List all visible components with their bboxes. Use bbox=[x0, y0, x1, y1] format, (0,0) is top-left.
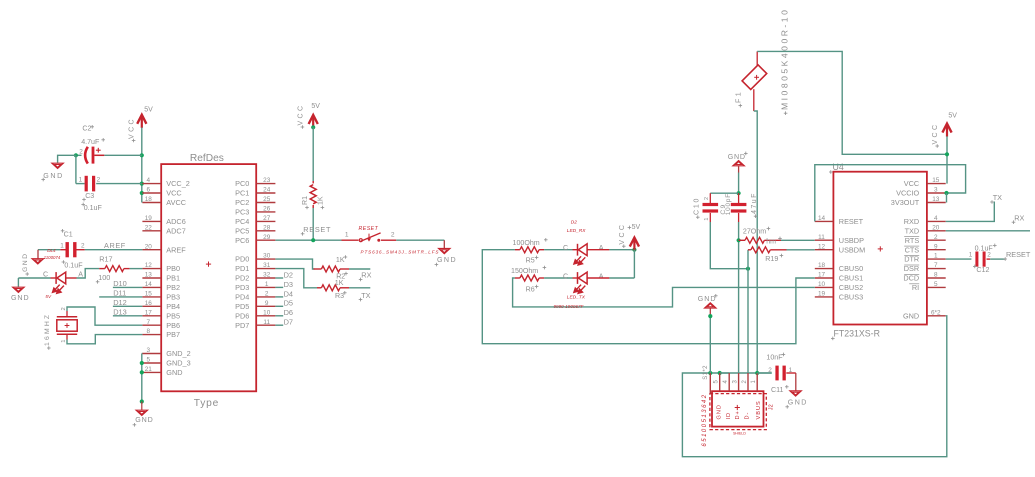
net D7 bbox=[275, 324, 283, 326]
svg-text:D5: D5 bbox=[284, 299, 293, 308]
svg-text:R19: R19 bbox=[765, 255, 778, 263]
wire VBUS node to C11 bbox=[757, 372, 772, 374]
svg-text:PD3: PD3 bbox=[235, 283, 249, 292]
pin 13 3V3OUT (U4 right) bbox=[927, 202, 946, 204]
wire crystal bottom to PB7 bbox=[66, 334, 68, 339]
wire R5 to LED_RX bbox=[544, 249, 572, 251]
svg-text:16: 16 bbox=[145, 300, 153, 307]
pin 15 VCC (U4 right) bbox=[927, 183, 946, 185]
pin 16 PB4 (U1 left) bbox=[142, 305, 161, 307]
svg-text:D12: D12 bbox=[113, 298, 127, 307]
svg-text:GND: GND bbox=[437, 256, 457, 264]
pin 32 PD2 (U1 right) bbox=[256, 277, 275, 279]
svg-text:LED_TX: LED_TX bbox=[567, 294, 586, 300]
junction USB vbus node bbox=[755, 371, 759, 375]
wire PD1 to R3 bbox=[275, 269, 317, 288]
pin 4 VCC_2 (U1 left) bbox=[142, 183, 161, 185]
svg-text:C12: C12 bbox=[976, 266, 989, 274]
ground symbol below U1 bbox=[141, 402, 143, 410]
net D4 bbox=[275, 296, 283, 298]
junction below arrow bbox=[311, 125, 315, 129]
svg-text:RESET: RESET bbox=[1006, 250, 1031, 259]
svg-text:D2: D2 bbox=[284, 270, 293, 279]
svg-text:PC4: PC4 bbox=[235, 217, 249, 226]
pin 25 PC2 (U1 right) bbox=[256, 202, 275, 204]
capacitor C2 4.7uF polarized bbox=[85, 147, 88, 164]
svg-text:20: 20 bbox=[145, 243, 153, 250]
wire usb gnd symbol down bbox=[709, 316, 711, 373]
svg-text:GND: GND bbox=[22, 252, 29, 271]
USB connector shield outline bbox=[710, 394, 766, 430]
pin 28 PC5 (U1 right) bbox=[256, 230, 275, 232]
svg-text:A: A bbox=[78, 270, 83, 278]
svg-text:3: 3 bbox=[934, 187, 938, 194]
svg-text:R1: R1 bbox=[301, 196, 309, 205]
USB connector J2 box bbox=[712, 391, 764, 426]
ground symbol C11 bbox=[795, 373, 797, 391]
svg-text:CBUS2: CBUS2 bbox=[839, 283, 863, 292]
wire LED_TX anode to VCC drop bbox=[587, 277, 609, 279]
wire R17 to PB0 bbox=[130, 268, 143, 270]
LED D5 LED_TX bbox=[578, 272, 588, 284]
svg-text:27: 27 bbox=[263, 215, 271, 222]
supply VCC arrow (5V) near R1 bbox=[309, 115, 318, 128]
junction shield node bbox=[708, 371, 712, 375]
svg-text:1K: 1K bbox=[335, 279, 344, 287]
ground symbol AREF bbox=[37, 250, 39, 259]
svg-text:USBDM: USBDM bbox=[839, 245, 865, 254]
svg-text:5: 5 bbox=[147, 357, 151, 364]
svg-text:RefDes: RefDes bbox=[190, 153, 224, 164]
svg-text:2: 2 bbox=[704, 197, 710, 200]
svg-text:11: 11 bbox=[263, 319, 270, 326]
svg-text:23: 23 bbox=[263, 177, 271, 184]
wire PD0 to R2 bbox=[275, 259, 314, 269]
capacitor C1 0.1uF bbox=[60, 249, 65, 251]
svg-text:VCC: VCC bbox=[129, 117, 136, 139]
USB pin 4 bbox=[728, 373, 730, 391]
pin 26 PC3 (U1 right) bbox=[256, 211, 275, 213]
svg-text:C: C bbox=[563, 273, 568, 281]
pin 15 PB3 (U1 left) bbox=[142, 296, 161, 298]
junction LED VCC node bbox=[632, 248, 636, 252]
pin 7 PB6 (U1 left) bbox=[142, 324, 161, 326]
svg-text:VCC: VCC bbox=[932, 123, 939, 145]
svg-text:Type: Type bbox=[194, 398, 219, 409]
svg-text:1K: 1K bbox=[316, 196, 324, 205]
pin 6 VCC (U1 left) bbox=[142, 192, 161, 194]
svg-text:C: C bbox=[563, 244, 568, 252]
USB shield stub bbox=[709, 373, 711, 394]
svg-text:GND_3: GND_3 bbox=[166, 359, 190, 368]
wire DTR to C12 bbox=[946, 258, 972, 260]
LED D4 LED_RX bbox=[578, 244, 588, 256]
pin 10 PD6 (U1 right) bbox=[256, 315, 275, 317]
svg-text:14: 14 bbox=[145, 281, 153, 288]
svg-text:PB0: PB0 bbox=[166, 264, 180, 273]
svg-text:1: 1 bbox=[969, 251, 973, 258]
svg-text:100: 100 bbox=[98, 273, 110, 282]
pin 10 CBUS2 (U4 left) bbox=[815, 286, 834, 288]
svg-text:FT231XS-R: FT231XS-R bbox=[834, 328, 880, 338]
svg-text:VBUS: VBUS bbox=[756, 400, 762, 419]
svg-text:150Ohm: 150Ohm bbox=[511, 267, 538, 275]
svg-text:100pF: 100pF bbox=[725, 193, 732, 215]
svg-text:GND_2: GND_2 bbox=[166, 349, 190, 358]
svg-text:PD7: PD7 bbox=[235, 321, 249, 330]
net D12 bbox=[113, 305, 142, 307]
svg-text:5V: 5V bbox=[632, 224, 641, 231]
svg-text:0.1uF: 0.1uF bbox=[975, 244, 994, 252]
origin cross J2 bbox=[735, 405, 740, 410]
svg-text:PC3: PC3 bbox=[235, 208, 249, 217]
resistor R5 100Ohm bbox=[515, 249, 520, 251]
svg-text:25: 25 bbox=[263, 196, 271, 203]
wire RXD to TX label bbox=[946, 202, 995, 222]
origin cross U4 bbox=[878, 246, 883, 251]
svg-text:18: 18 bbox=[818, 262, 826, 269]
svg-text:0.1uF: 0.1uF bbox=[84, 204, 103, 212]
capacitor C10 47pF (D- line) bbox=[709, 193, 711, 203]
junction D- node bbox=[746, 267, 750, 271]
wire USB top row bbox=[710, 372, 771, 374]
junction cap gnd node bbox=[737, 191, 741, 195]
svg-text:hm: hm bbox=[766, 238, 776, 245]
svg-text:11: 11 bbox=[818, 234, 825, 241]
wire R19 to USBDM bbox=[787, 249, 815, 251]
pin 31 PD1 (U1 right) bbox=[256, 268, 275, 270]
svg-text:TXD: TXD bbox=[905, 226, 920, 235]
svg-text:21: 21 bbox=[145, 366, 153, 373]
svg-text:USBDP: USBDP bbox=[839, 236, 864, 245]
wire D- down to USB pin 2 bbox=[747, 269, 749, 373]
wire R1 to RESET node bbox=[312, 208, 314, 240]
svg-text:VCC: VCC bbox=[904, 179, 919, 188]
supply VCC arrow (5V) right bbox=[942, 124, 951, 137]
pin 21 GND (U1 left) bbox=[142, 371, 161, 373]
wire R3 to TX bbox=[349, 287, 370, 289]
pin 14 RESET (U4 left) bbox=[815, 220, 834, 222]
svg-text:2: 2 bbox=[265, 291, 269, 298]
resistor R1 1K vertical bbox=[312, 181, 314, 183]
svg-text:R3: R3 bbox=[335, 292, 344, 300]
svg-text:15: 15 bbox=[932, 177, 940, 184]
svg-text:DCD: DCD bbox=[903, 274, 919, 283]
svg-text:C3: C3 bbox=[85, 192, 94, 200]
svg-text:3: 3 bbox=[732, 380, 738, 384]
junction on gnd drop bbox=[708, 314, 712, 318]
svg-text:16MHZ: 16MHZ bbox=[44, 313, 51, 346]
pin 22 ADC7 (U1 left) bbox=[142, 230, 161, 232]
pin 30 PD0 (U1 right) bbox=[256, 258, 275, 260]
svg-text:PC5: PC5 bbox=[235, 226, 249, 235]
svg-text:1100074: 1100074 bbox=[44, 255, 61, 260]
svg-text:8: 8 bbox=[934, 272, 938, 279]
wire arrow to VCC pin bbox=[946, 136, 948, 183]
pin 4 RXD (U4 right) bbox=[927, 220, 946, 222]
wire C2 node down to C3 bbox=[75, 155, 77, 183]
resistor R18 27Ohm bbox=[739, 239, 745, 241]
svg-text:24: 24 bbox=[263, 187, 271, 194]
svg-text:VCC_2: VCC_2 bbox=[166, 179, 190, 188]
svg-text:PB5: PB5 bbox=[166, 311, 180, 320]
svg-text:AREF: AREF bbox=[166, 245, 186, 254]
pin 20 TXD (U4 right) bbox=[927, 230, 946, 232]
ground symbol top-left bbox=[52, 163, 63, 168]
svg-text:2: 2 bbox=[391, 232, 395, 239]
svg-text:PB2: PB2 bbox=[166, 283, 180, 292]
svg-text:0.1uF: 0.1uF bbox=[64, 262, 83, 270]
svg-text:5: 5 bbox=[714, 380, 720, 384]
wire C2 right to rail bbox=[104, 154, 142, 156]
svg-text:PB3: PB3 bbox=[166, 293, 180, 302]
wire VCC drop to LED_TX row bbox=[633, 250, 635, 278]
svg-text:29: 29 bbox=[263, 234, 271, 241]
wire U4 GND to bottom loop bbox=[682, 316, 946, 457]
svg-text:20: 20 bbox=[932, 224, 940, 231]
svg-text:19: 19 bbox=[145, 215, 153, 222]
svg-text:1: 1 bbox=[789, 367, 793, 374]
svg-text:C: C bbox=[43, 270, 48, 278]
svg-text:10nF: 10nF bbox=[766, 354, 783, 362]
svg-text:R6: R6 bbox=[526, 286, 535, 294]
svg-text:PTS636_SM43J_SMTR_LFS: PTS636_SM43J_SMTR_LFS bbox=[361, 249, 440, 254]
svg-text:A: A bbox=[599, 244, 604, 252]
net D3 bbox=[275, 286, 283, 288]
pin 19 CBUS3 (U4 left) bbox=[815, 296, 834, 298]
svg-text:1: 1 bbox=[79, 177, 83, 184]
pin 17 CBUS1 (U4 left) bbox=[815, 277, 834, 279]
svg-text:2: 2 bbox=[97, 177, 101, 184]
pin 29 PC6 (U1 right) bbox=[256, 239, 275, 241]
svg-text:1: 1 bbox=[61, 340, 67, 343]
svg-text:PB1: PB1 bbox=[166, 274, 180, 283]
junction VCC row bbox=[140, 191, 144, 195]
junction VCC node bbox=[945, 152, 949, 156]
svg-text:TX: TX bbox=[361, 291, 370, 300]
resistor R2 1K bbox=[314, 268, 322, 270]
svg-text:AVCC: AVCC bbox=[166, 198, 186, 207]
wire F1 top loop to VCC node bbox=[756, 51, 758, 65]
pin 9 CTS (U4 right) bbox=[927, 249, 946, 251]
svg-text:2: 2 bbox=[934, 234, 938, 241]
svg-text:RX: RX bbox=[361, 271, 371, 280]
resistor R3 1K bbox=[317, 287, 321, 289]
svg-text:PD5: PD5 bbox=[235, 302, 249, 311]
svg-text:2: 2 bbox=[742, 380, 748, 384]
svg-text:1: 1 bbox=[265, 281, 269, 288]
svg-text:12: 12 bbox=[145, 262, 153, 269]
supply VCC arrow (5V) left bbox=[137, 115, 146, 128]
svg-text:PC2: PC2 bbox=[235, 198, 249, 207]
svg-text:PC1: PC1 bbox=[235, 189, 249, 198]
svg-text:VCC: VCC bbox=[619, 223, 626, 245]
pin 24 PC1 (U1 right) bbox=[256, 192, 275, 194]
svg-text:SHIELD: SHIELD bbox=[733, 432, 746, 436]
svg-text:D-: D- bbox=[744, 412, 750, 420]
pin 14 PB2 (U1 left) bbox=[142, 286, 161, 288]
svg-text:D11: D11 bbox=[113, 289, 126, 298]
svg-text:27Ohm: 27Ohm bbox=[743, 228, 766, 236]
IC U4 FT231XS-R box bbox=[833, 172, 927, 325]
wire VCCIO to 3V3OUT bbox=[946, 193, 948, 203]
net D11 bbox=[99, 296, 142, 298]
resistor R6 150Ohm bbox=[515, 277, 520, 279]
wire C12 to RESET label bbox=[990, 258, 1005, 260]
pin 8 PB7 (U1 left) bbox=[142, 334, 161, 336]
svg-text:S1*2: S1*2 bbox=[703, 365, 709, 380]
svg-text:19: 19 bbox=[818, 291, 826, 298]
resistor R19 27Ohm bbox=[748, 249, 751, 251]
svg-text:D3: D3 bbox=[284, 280, 293, 289]
wire LED D1 cathode bbox=[18, 277, 50, 279]
pin 20 AREF (U1 left) bbox=[142, 249, 161, 251]
pin 11 USBDP (U4 left) bbox=[815, 239, 834, 241]
wire gnd to cap node bbox=[738, 173, 740, 194]
svg-text:PB4: PB4 bbox=[166, 302, 180, 311]
svg-text:100Ohm: 100Ohm bbox=[513, 239, 540, 247]
pin 1 PD3 (U1 right) bbox=[256, 286, 275, 288]
svg-text:GND: GND bbox=[11, 294, 29, 302]
pin 12 USBDM (U4 left) bbox=[815, 249, 834, 251]
svg-text:22: 22 bbox=[145, 224, 153, 231]
capacitor C3 0.1uF bbox=[85, 176, 96, 192]
wire R18 to USBDP bbox=[781, 239, 815, 241]
svg-text:J2: J2 bbox=[768, 404, 774, 410]
svg-text:10: 10 bbox=[818, 281, 826, 288]
ground symbol at button bbox=[443, 240, 445, 248]
svg-text:9: 9 bbox=[265, 300, 269, 307]
svg-text:28: 28 bbox=[263, 224, 271, 231]
pin 9 PD5 (U1 right) bbox=[256, 305, 275, 307]
capacitor C12 0.1uF bbox=[975, 252, 985, 267]
svg-text:14: 14 bbox=[818, 215, 826, 222]
svg-text:PD1: PD1 bbox=[235, 264, 249, 273]
net D13 bbox=[113, 315, 142, 317]
pin 17 PB5 (U1 left) bbox=[142, 315, 161, 317]
svg-text:GND: GND bbox=[728, 153, 746, 161]
svg-text:CTS: CTS bbox=[905, 245, 920, 254]
svg-text:PB7: PB7 bbox=[166, 330, 180, 339]
svg-text:9: 9 bbox=[934, 243, 938, 250]
svg-text:RTS: RTS bbox=[905, 236, 920, 245]
svg-text:D6: D6 bbox=[284, 308, 293, 317]
svg-text:6: 6 bbox=[147, 187, 151, 194]
junction RESET node bbox=[311, 238, 315, 242]
svg-text:D7: D7 bbox=[284, 318, 293, 327]
pin 3 GND_2 (U1 left) bbox=[142, 353, 161, 355]
svg-text:GND: GND bbox=[698, 295, 717, 303]
wire C3 left lead bbox=[76, 183, 85, 185]
wire TXD to RX label bbox=[946, 230, 1030, 232]
net D6 bbox=[275, 315, 283, 317]
wire C1 to AREF pin bbox=[85, 249, 143, 251]
junction USB gnd pin node bbox=[718, 371, 722, 375]
svg-text:15: 15 bbox=[145, 291, 153, 298]
wire crystal top to PB6 bbox=[66, 311, 68, 317]
svg-text:GND: GND bbox=[903, 311, 919, 320]
ferrite bead F1 bbox=[742, 65, 767, 90]
svg-text:F1: F1 bbox=[734, 90, 742, 103]
pushbutton S1 RESET bbox=[342, 239, 359, 241]
svg-text:5: 5 bbox=[934, 281, 938, 288]
pin 13 PB1 (U1 left) bbox=[142, 277, 161, 279]
junction GND_3 bbox=[140, 361, 144, 365]
svg-text:DSR: DSR bbox=[904, 264, 919, 273]
crystal Y1 16MHZ bbox=[57, 320, 77, 331]
svg-text:TX: TX bbox=[993, 193, 1002, 202]
svg-text:4: 4 bbox=[934, 215, 938, 222]
pin 19 ADC6 (U1 left) bbox=[142, 220, 161, 222]
svg-text:7: 7 bbox=[147, 319, 151, 326]
svg-text:5V: 5V bbox=[948, 113, 957, 120]
svg-text:3: 3 bbox=[147, 347, 151, 354]
svg-text:CBUS1: CBUS1 bbox=[839, 274, 863, 283]
svg-text:9990-190067F: 9990-190067F bbox=[554, 304, 585, 309]
svg-text:A: A bbox=[599, 273, 604, 281]
svg-text:GND: GND bbox=[43, 172, 64, 180]
origin cross U1 bbox=[206, 262, 211, 267]
wire CBUS1 to LED_RX loop bbox=[482, 250, 815, 344]
svg-text:PD6: PD6 bbox=[235, 311, 249, 320]
pin 8 DCD (U4 right) bbox=[927, 277, 946, 279]
svg-text:30: 30 bbox=[263, 253, 271, 260]
svg-text:17: 17 bbox=[145, 309, 153, 316]
svg-text:13: 13 bbox=[145, 272, 153, 279]
USB pin 3 bbox=[738, 373, 740, 391]
wire R2 to RX bbox=[349, 268, 370, 270]
supply VCC arrow (5V) LEDs bbox=[630, 238, 639, 251]
USB pin 1 bbox=[756, 373, 758, 391]
wire D+ cap down to USB pin 3 bbox=[738, 222, 740, 373]
svg-text:31: 31 bbox=[263, 262, 271, 269]
svg-text:GND: GND bbox=[788, 399, 808, 407]
svg-text:18: 18 bbox=[145, 196, 153, 203]
svg-text:5V: 5V bbox=[311, 103, 320, 110]
svg-text:VCC: VCC bbox=[297, 104, 304, 126]
svg-text:PC0: PC0 bbox=[235, 179, 249, 188]
svg-text:PC6: PC6 bbox=[235, 236, 249, 245]
svg-text:RXD: RXD bbox=[904, 217, 919, 226]
capacitor C11 10nF bbox=[775, 366, 785, 381]
svg-text:6*2: 6*2 bbox=[931, 309, 941, 316]
svg-text:D10: D10 bbox=[113, 279, 127, 288]
pin 18 CBUS0 (U4 left) bbox=[815, 268, 834, 270]
net D5 bbox=[275, 305, 283, 307]
svg-text:CBUS3: CBUS3 bbox=[839, 293, 863, 302]
junction gnd symbol node bbox=[140, 399, 144, 403]
pin 11 PD7 (U1 right) bbox=[256, 324, 275, 326]
svg-text:PD4: PD4 bbox=[235, 293, 249, 302]
svg-text:C1: C1 bbox=[64, 231, 73, 239]
LED D1 bbox=[56, 272, 66, 284]
wire cap gnd node to C10 bbox=[710, 192, 738, 194]
svg-text:GND: GND bbox=[166, 368, 182, 377]
wire arrow to R1 bbox=[312, 127, 314, 181]
svg-text:ADC6: ADC6 bbox=[166, 217, 185, 226]
svg-text:DTR: DTR bbox=[904, 255, 919, 264]
svg-text:3V3OUT: 3V3OUT bbox=[891, 198, 920, 207]
svg-text:GND: GND bbox=[717, 404, 723, 419]
wire D1 anode to R17 bbox=[66, 277, 77, 279]
svg-text:2: 2 bbox=[79, 148, 83, 155]
wire C3 right to rail bbox=[96, 183, 142, 185]
net D10 bbox=[113, 286, 142, 288]
wire GND rail U1 bbox=[141, 353, 144, 355]
svg-text:AREF: AREF bbox=[104, 241, 126, 250]
svg-text:10: 10 bbox=[263, 309, 271, 316]
svg-text:ADC7: ADC7 bbox=[166, 226, 185, 235]
